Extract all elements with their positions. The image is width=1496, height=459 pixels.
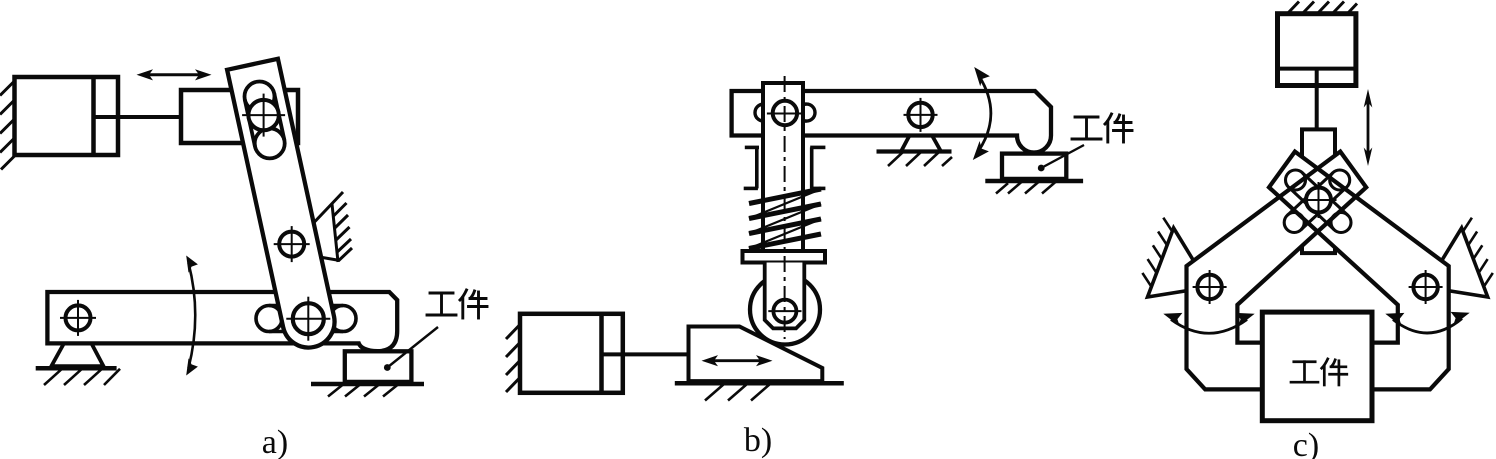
- left clamp lever outline c: [1187, 152, 1367, 390]
- swing arc arrow a: [186, 256, 198, 376]
- mid support triangle b: [901, 115, 941, 152]
- svg-text:c): c): [1293, 427, 1319, 459]
- piston rod c: [1315, 69, 1319, 131]
- right clamp lever outline c: [1269, 152, 1449, 390]
- center dash-dot line b: [784, 76, 786, 339]
- roller pivot b: [768, 300, 801, 323]
- label gongjian a: [427, 290, 487, 318]
- piston line c: [1278, 67, 1356, 71]
- slot in bar a: [256, 306, 356, 332]
- cylinder a body: [15, 77, 119, 155]
- fixed support triangle left c: [1142, 218, 1209, 297]
- mid pivot bar b: [904, 98, 938, 132]
- pivot link-bar b: [767, 101, 803, 125]
- ground with hatching under workpiece a: [311, 384, 424, 397]
- slider block a: [181, 90, 298, 143]
- mid pivot of lever a: [274, 226, 310, 262]
- leader line with dot a: [384, 327, 438, 371]
- motion double arrow c: [1364, 89, 1373, 166]
- piston rod a: [94, 115, 183, 119]
- wedge b: [689, 327, 823, 382]
- slot in bar b: [755, 104, 815, 121]
- piston rod b: [602, 352, 691, 356]
- ground with hatching under workpiece b: [985, 181, 1083, 194]
- ground with hatching mid support b: [877, 152, 953, 167]
- top bar b with clamp foot: [732, 91, 1051, 153]
- fixed pivot bracket with hatching (mid lever) a: [314, 192, 352, 262]
- central pin c: [1301, 182, 1337, 218]
- spring coils b: [749, 189, 821, 249]
- spring seat plate b: [743, 251, 826, 263]
- left pivot c: [1193, 270, 1227, 304]
- guide bracket right b: [810, 147, 825, 188]
- cylinder b body: [520, 314, 623, 393]
- slider block c: [1302, 129, 1335, 253]
- left pivot of bar a: [60, 300, 96, 336]
- workpiece block a: [345, 351, 412, 382]
- svg-text:b): b): [744, 422, 772, 459]
- svg-text:a): a): [262, 424, 288, 459]
- wall hatching left of cylinder a: [0, 81, 15, 170]
- right pivot c: [1409, 270, 1443, 304]
- label gongjian c: [1291, 359, 1347, 385]
- slot of left lever c: [1284, 170, 1350, 233]
- guide bracket left b: [744, 147, 759, 188]
- cylinder c body: [1278, 14, 1356, 86]
- motion double arrow a: [137, 69, 212, 80]
- fixed support triangle right c: [1426, 218, 1493, 297]
- slot in lever a: [245, 82, 285, 159]
- ground with hatching under triangle a: [36, 368, 120, 385]
- rotation arc arrow b: [973, 67, 991, 160]
- rocker bar a with clamp foot: [47, 292, 397, 351]
- wall hatching left of cylinder b: [506, 325, 520, 393]
- piston line b: [599, 314, 604, 393]
- slot of right lever c: [1286, 170, 1352, 233]
- lower pivot lever-bar a: [286, 297, 330, 341]
- roller b: [750, 275, 820, 345]
- label gongjian b: [1072, 114, 1132, 142]
- slotted lever a: [227, 59, 334, 348]
- workpiece block b: [1002, 154, 1066, 179]
- vertical link b: [763, 83, 803, 251]
- workpiece block c: [1262, 312, 1372, 421]
- pin in lever slot a: [242, 94, 285, 137]
- support triangle under bar a: [51, 318, 103, 366]
- link lower end inside roller b: [765, 263, 805, 329]
- swing arc arrow left c: [1163, 313, 1254, 333]
- ceiling hatching above cylinder c: [1288, 2, 1357, 14]
- left clamp lever fill c: [1187, 152, 1367, 390]
- right clamp lever fill c: [1269, 152, 1449, 390]
- piston line a: [91, 77, 96, 155]
- swing arc arrow right c: [1385, 312, 1469, 333]
- leader line with dot b: [1038, 145, 1084, 171]
- ground with hatching under wedge b: [675, 383, 844, 400]
- motion double arrow in wedge b: [702, 355, 773, 366]
